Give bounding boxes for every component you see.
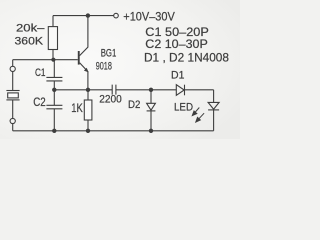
capacitor C2 [46,105,62,109]
wire resistor bottom to base line [52,50,54,60]
diode D1 [176,85,184,96]
junction top rail [86,13,90,17]
junction D2 top [149,88,153,92]
svg-text:C1: C1 [35,67,46,79]
wire resistor top drop [52,16,54,27]
svg-text:D2: D2 [128,99,140,111]
transistor emitter arrowhead [84,68,89,73]
transistor BG1 collector [80,16,88,56]
junction emitter node [86,88,90,92]
diode D2 top lead [150,90,152,104]
wire C1 top lead [53,60,55,78]
wire circle to crystal [12,72,14,91]
wire output line mid [116,89,176,91]
wire left vertical upper [12,60,14,67]
wire node to C2 [53,90,55,106]
crystal terminal circle bottom [10,118,15,123]
wire top rail [53,15,114,17]
wire bottom rail [13,130,214,132]
LED arrow 2 [199,113,205,119]
wire LED top lead [213,90,215,103]
svg-text:20k–: 20k– [16,22,45,34]
svg-text:C2 10–30P: C2 10–30P [145,37,208,51]
junction base line [51,58,55,62]
terminal +V circle [114,13,119,18]
wire LED bottom lead [213,110,215,131]
resistor 1K [84,100,92,120]
svg-text:C2: C2 [33,97,46,109]
LED arrow 1 [192,108,204,123]
wire D1 to LED corner [185,89,214,91]
resistor R1 20k-360k [48,27,57,50]
crystal B1 [6,90,19,92]
svg-text:D1 , D2 1N4008: D1 , D2 1N4008 [144,50,229,64]
svg-text:BG1: BG1 [101,48,117,60]
wire 1K bottom lead [87,120,89,131]
capacitor 2200 [112,85,116,95]
svg-text:LED: LED [174,102,193,114]
svg-text:9018: 9018 [96,61,112,73]
wire crystal to bottom circle [12,100,14,119]
LED diode [208,102,219,109]
crystal terminal circle top [10,66,15,71]
svg-text:+10V–30V: +10V–30V [123,10,175,24]
svg-text:1K: 1K [71,103,83,115]
svg-text:360K: 360K [15,35,44,47]
junction 1K bottom [86,129,90,133]
transistor BG1 base bar [78,51,80,65]
svg-text:D1: D1 [171,69,184,81]
transistor BG1 emitter [80,63,88,90]
junction C1 C2 node [52,88,56,92]
svg-text:2200: 2200 [99,94,122,106]
wire bottom left corner [12,124,14,131]
wire C1 to node [53,81,55,90]
wire base line [13,59,78,61]
junction D2 bottom [149,129,153,133]
wire 1K top lead [87,90,89,100]
diode D2 [147,103,156,110]
diode D2 bottom lead [150,111,152,131]
wire C2 bottom lead [53,109,55,131]
capacitor C1 [46,77,62,81]
wire output line left [54,89,112,91]
junction C2 bottom [52,129,56,133]
